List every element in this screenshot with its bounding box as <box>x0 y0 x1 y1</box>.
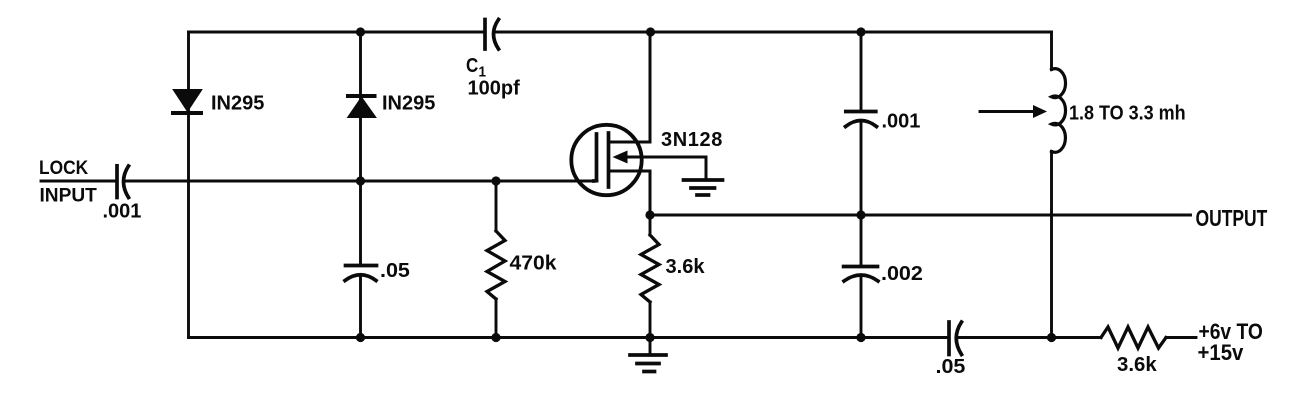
wire lock input <box>41 180 597 183</box>
transistor Q1 gate <box>594 134 597 181</box>
svg-text:LOCK: LOCK <box>39 156 89 178</box>
svg-text:470k: 470k <box>510 252 557 275</box>
node input 470k <box>491 176 500 185</box>
node top rail diode2 <box>356 27 365 36</box>
transistor Q1 drain lead <box>609 32 651 142</box>
label OUTPUT <box>1196 207 1268 232</box>
label +15v <box>1198 341 1244 365</box>
wire cap branch 861 <box>860 32 863 338</box>
label INPUT <box>40 185 98 206</box>
label 3.6k bottom <box>1117 354 1157 376</box>
resistor R3 3.6k bottom <box>1101 327 1166 348</box>
diode CR1 1N295 <box>173 90 201 113</box>
label .05 left <box>380 259 410 281</box>
svg-text:.05: .05 <box>936 355 966 377</box>
wire 470k branch <box>495 181 498 338</box>
label 1N295 right <box>382 93 435 115</box>
capacitor C3 .05 <box>345 266 377 281</box>
node bottom ground <box>645 333 654 342</box>
wire output <box>650 214 1191 217</box>
inductor L1 <box>1052 69 1066 153</box>
label 3.6k mid <box>666 256 706 278</box>
svg-text:.001: .001 <box>103 201 142 223</box>
svg-text:.002: .002 <box>881 262 923 284</box>
svg-text:3.6k: 3.6k <box>666 256 706 278</box>
capacitor C6 .05 bottom <box>949 322 962 355</box>
wire top rail <box>189 31 1052 34</box>
label .001 input <box>103 201 142 223</box>
wire diode branch <box>359 32 362 338</box>
node top rail drain <box>646 27 655 36</box>
wire bottom rail <box>189 336 1197 339</box>
svg-text:INPUT: INPUT <box>40 185 98 206</box>
capacitor C2 .001 input <box>117 166 129 198</box>
svg-text:IN295: IN295 <box>382 93 435 115</box>
svg-text:IN295: IN295 <box>211 93 264 115</box>
label LOCK <box>39 156 89 178</box>
ground G2 bottom <box>630 338 666 372</box>
svg-text:.05: .05 <box>380 259 410 281</box>
svg-text:3.6k: 3.6k <box>1117 354 1157 376</box>
node bottom diode branch <box>356 333 365 342</box>
label .05 bottom <box>936 355 966 377</box>
node bottom 470k <box>491 333 500 342</box>
resistor R2 3.6k <box>641 235 659 302</box>
label 100pf <box>468 78 521 100</box>
node top rail cap branch <box>856 27 865 36</box>
capacitor C1 top <box>485 20 499 50</box>
svg-text:3N128: 3N128 <box>661 129 723 151</box>
label 470k <box>510 252 557 275</box>
label C1 <box>466 54 486 81</box>
node bottom cap branch <box>856 333 865 342</box>
label 3N128 <box>661 129 723 151</box>
diode CR2 1N295 <box>348 96 375 117</box>
label 1N295 left <box>211 93 264 115</box>
capacitor C5 .002 <box>844 267 878 282</box>
wire source to resistor <box>649 215 652 338</box>
capacitor C4 .001 <box>846 112 877 127</box>
transistor Q1 source lead <box>609 171 651 215</box>
ground G1 substrate <box>684 180 723 195</box>
label +6v TO <box>1199 320 1263 344</box>
arrow to inductor <box>980 105 1047 118</box>
resistor R1 470k <box>487 231 505 299</box>
svg-text:+15v: +15v <box>1198 341 1244 365</box>
svg-text:1.8 TO 3.3 mh: 1.8 TO 3.3 mh <box>1069 103 1186 125</box>
label .001 right <box>882 111 921 133</box>
wire left rail <box>187 32 190 338</box>
node bottom inductor <box>1047 333 1056 342</box>
node output source <box>645 210 654 219</box>
node output cap branch <box>856 210 865 219</box>
svg-text:OUTPUT: OUTPUT <box>1196 207 1268 232</box>
transistor Q1 3N128 body <box>571 125 641 195</box>
wire inductor branch <box>1050 32 1053 338</box>
transistor Q1 substrate lead with arrow <box>613 151 707 181</box>
node input diode2 <box>356 176 365 185</box>
svg-text:C: C <box>466 54 478 77</box>
transistor Q1 channel <box>607 133 611 187</box>
label .002 <box>881 262 923 284</box>
label 1.8 TO 3.3 mh <box>1069 103 1186 125</box>
svg-text:.001: .001 <box>882 111 921 133</box>
svg-text:100pf: 100pf <box>468 78 521 100</box>
